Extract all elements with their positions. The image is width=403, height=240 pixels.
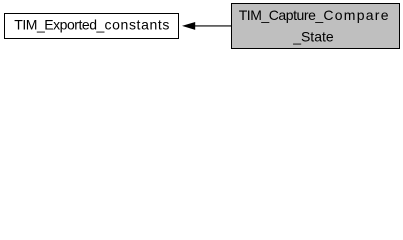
svg-text:Compare: Compare — [323, 7, 388, 23]
svg-text:TIM_Capture_: TIM_Capture_ — [239, 7, 324, 23]
svg-text:_State: _State — [292, 28, 334, 44]
node TIM_Exported_constants — [5, 14, 179, 39]
node TIM_Capture_Compare_State — [232, 4, 400, 49]
background — [0, 0, 403, 52]
svg-text:constants: constants — [105, 17, 170, 33]
wire — [195, 25, 232, 27]
edge TIM_Capture_Compare_State to TIM_Exported_constants — [182, 22, 232, 30]
module dependency graph — [0, 0, 403, 52]
arrowhead — [182, 22, 195, 30]
svg-text:TIM_Exported_: TIM_Exported_ — [14, 17, 104, 33]
